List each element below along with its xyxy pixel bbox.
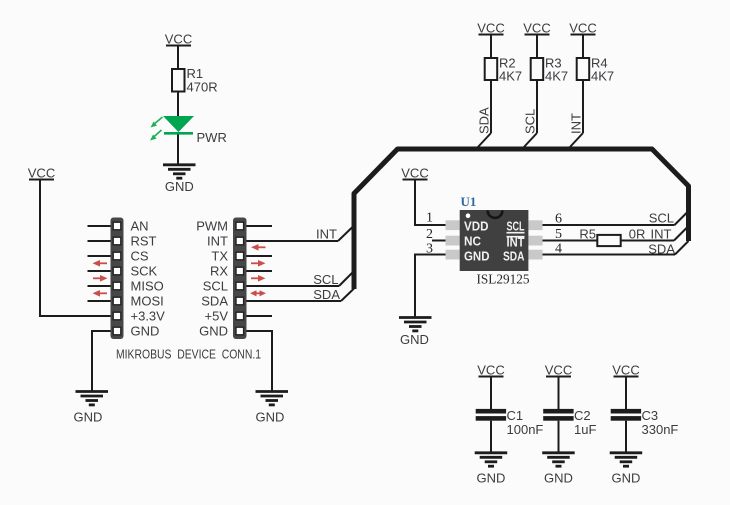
svg-text:R5: R5 [579, 227, 596, 242]
wire [490, 421, 492, 452]
svg-text:RST: RST [131, 234, 157, 249]
wire [536, 36, 538, 59]
wire SCK [88, 270, 111, 272]
wire MISO [88, 285, 111, 287]
wire diagonal to bus [570, 133, 584, 148]
svg-text:SCK: SCK [131, 264, 158, 279]
svg-text:SDA: SDA [477, 107, 492, 134]
power VCC (C1) [477, 363, 504, 378]
wire pin4 SDA [543, 254, 676, 256]
svg-text:INT: INT [651, 227, 672, 242]
svg-text:ISL29125: ISL29125 [477, 273, 530, 288]
svg-text:+3.3V: +3.3V [131, 309, 166, 324]
svg-text:GND: GND [544, 471, 573, 486]
resistor R3 [531, 56, 568, 84]
wire [582, 36, 584, 59]
svg-text:SDA: SDA [503, 250, 525, 264]
svg-text:4K7: 4K7 [499, 69, 522, 84]
svg-text:100nF: 100nF [507, 422, 544, 437]
wire PWM stub [247, 225, 273, 227]
wire [625, 421, 627, 452]
wire pin5 to R5 [543, 240, 598, 242]
power VCC (mikrobus +3.3V rail) [28, 166, 55, 181]
svg-text:VCC: VCC [28, 166, 55, 181]
svg-text:MIKROBUS DEVICE CONN.1: MIKROBUS DEVICE CONN.1 [116, 347, 261, 362]
power VCC (U1) [401, 166, 428, 181]
svg-text:INT: INT [316, 227, 337, 242]
wire SCL diagonal right [675, 212, 689, 226]
wire SCL diagonal [339, 272, 353, 286]
svg-text:AN: AN [131, 219, 149, 234]
svg-text:1uF: 1uF [574, 422, 596, 437]
svg-text:GND: GND [400, 332, 429, 347]
svg-text:VCC: VCC [477, 363, 504, 378]
ground (LED) [163, 165, 196, 194]
svg-text:SDA: SDA [201, 294, 228, 309]
wire pin3 to ground [415, 255, 446, 318]
wire diagonal to bus [478, 133, 492, 148]
power VCC (C2) [545, 363, 572, 378]
svg-text:INT: INT [507, 236, 525, 250]
header MIKROBUS left (AN..GND) [111, 218, 124, 340]
arrow TX [251, 260, 266, 267]
wire [40, 181, 111, 317]
bus [354, 149, 689, 289]
svg-text:VCC: VCC [523, 21, 550, 36]
svg-text:2: 2 [426, 227, 433, 242]
svg-text:MOSI: MOSI [131, 294, 164, 309]
arrow RX [251, 275, 266, 282]
svg-text:+5V: +5V [205, 309, 229, 324]
power VCC (R4) [569, 21, 596, 36]
svg-text:TX: TX [211, 249, 228, 264]
svg-text:CS: CS [131, 249, 149, 264]
power VCC (C3) [612, 363, 639, 378]
wire [177, 47, 179, 70]
wire [558, 378, 560, 410]
ground (U1) [399, 318, 432, 348]
svg-text:RX: RX [210, 264, 228, 279]
wire CS [88, 255, 111, 257]
svg-text:SCL: SCL [313, 272, 338, 287]
wire GND right header [247, 331, 273, 391]
svg-text:GND: GND [612, 471, 641, 486]
svg-text:SCL: SCL [203, 279, 228, 294]
power VCC (R3) [523, 21, 550, 36]
header DEVICE CONN.1 right (PWM..GND) [233, 218, 247, 340]
svg-text:SCL: SCL [507, 220, 525, 234]
svg-text:3: 3 [426, 242, 433, 257]
svg-text:VCC: VCC [165, 32, 192, 47]
wire GND left header [92, 331, 111, 391]
wire [177, 135, 179, 165]
svg-text:GND: GND [199, 324, 228, 339]
wire [582, 80, 584, 133]
svg-text:SCL: SCL [523, 109, 538, 134]
resistor R2 [485, 56, 522, 84]
svg-text:GND: GND [131, 324, 160, 339]
svg-text:PWR: PWR [197, 130, 227, 145]
capacitor C2 [543, 408, 596, 437]
svg-text:C2: C2 [574, 408, 591, 423]
wire pin6 SCL [543, 224, 675, 226]
power VCC (R1 top) [165, 32, 192, 47]
arrow MISO [93, 290, 108, 297]
ground (right header) [256, 392, 289, 425]
wire [536, 80, 538, 133]
svg-text:GND: GND [477, 471, 506, 486]
wire INT net [247, 240, 339, 242]
wire SCL net [247, 285, 340, 287]
wire SDA diagonal right [675, 241, 689, 255]
wire [625, 378, 627, 410]
resistor R4 [577, 56, 614, 84]
arrow INT [251, 244, 266, 251]
ground (left header) [74, 392, 108, 425]
wire [490, 36, 492, 59]
svg-text:GND: GND [464, 250, 490, 264]
svg-text:0R: 0R [629, 227, 646, 242]
wire SDA diagonal [341, 289, 354, 302]
arrow SDA both [250, 290, 266, 296]
svg-text:VCC: VCC [545, 363, 572, 378]
wire AN [88, 225, 111, 227]
ground (C1) [475, 453, 508, 486]
wire pin2 stub [432, 240, 446, 242]
svg-text:INT: INT [569, 113, 584, 134]
svg-text:GND: GND [165, 179, 194, 194]
wire diagonal to bus [524, 133, 538, 148]
LED PWR [150, 116, 227, 145]
svg-text:VCC: VCC [569, 21, 596, 36]
arrow CS [93, 260, 108, 267]
svg-text:4K7: 4K7 [545, 69, 568, 84]
wire INT diagonal [338, 227, 353, 241]
svg-text:VCC: VCC [612, 363, 639, 378]
wire RX stub [247, 270, 273, 272]
wire R5 to bus INT [621, 240, 674, 242]
svg-text:U1: U1 [461, 194, 477, 209]
svg-text:330nF: 330nF [642, 422, 679, 437]
svg-text:PWM: PWM [196, 219, 228, 234]
svg-text:SDA: SDA [313, 287, 340, 302]
svg-text:GND: GND [74, 410, 103, 425]
svg-text:SCL: SCL [649, 211, 674, 226]
capacitor C3 [611, 408, 679, 437]
wire [490, 80, 492, 133]
wire [177, 92, 179, 117]
svg-text:4K7: 4K7 [591, 69, 614, 84]
wire VCC to pin1 [415, 181, 446, 226]
svg-text:VDD: VDD [464, 220, 489, 234]
wire [558, 421, 560, 452]
arrow SCK [93, 275, 108, 282]
svg-text:MISO: MISO [131, 279, 164, 294]
svg-text:VCC: VCC [477, 21, 504, 36]
wire TX stub [247, 255, 273, 257]
svg-text:GND: GND [256, 410, 285, 425]
wire [490, 378, 492, 410]
svg-text:VCC: VCC [401, 166, 428, 181]
svg-text:C3: C3 [642, 408, 659, 423]
svg-text:1: 1 [426, 211, 433, 226]
wire +5V stub [247, 315, 273, 317]
op-amp U1 ISL29125 chip [446, 194, 543, 288]
resistor R1 [172, 66, 218, 95]
wire SDA net [247, 300, 342, 302]
wire INT diagonal right [674, 228, 687, 241]
wire MOSI [88, 300, 111, 302]
svg-text:C1: C1 [507, 408, 524, 423]
svg-text:470R: 470R [187, 80, 218, 95]
resistor R5 [579, 227, 645, 247]
ground (C3) [610, 453, 643, 486]
power VCC (R2) [477, 21, 504, 36]
ground (C2) [542, 453, 575, 486]
svg-text:SDA: SDA [648, 242, 675, 257]
svg-text:NC: NC [464, 235, 481, 249]
capacitor C1 [476, 408, 544, 437]
svg-text:INT: INT [207, 234, 228, 249]
wire RST [88, 240, 111, 242]
